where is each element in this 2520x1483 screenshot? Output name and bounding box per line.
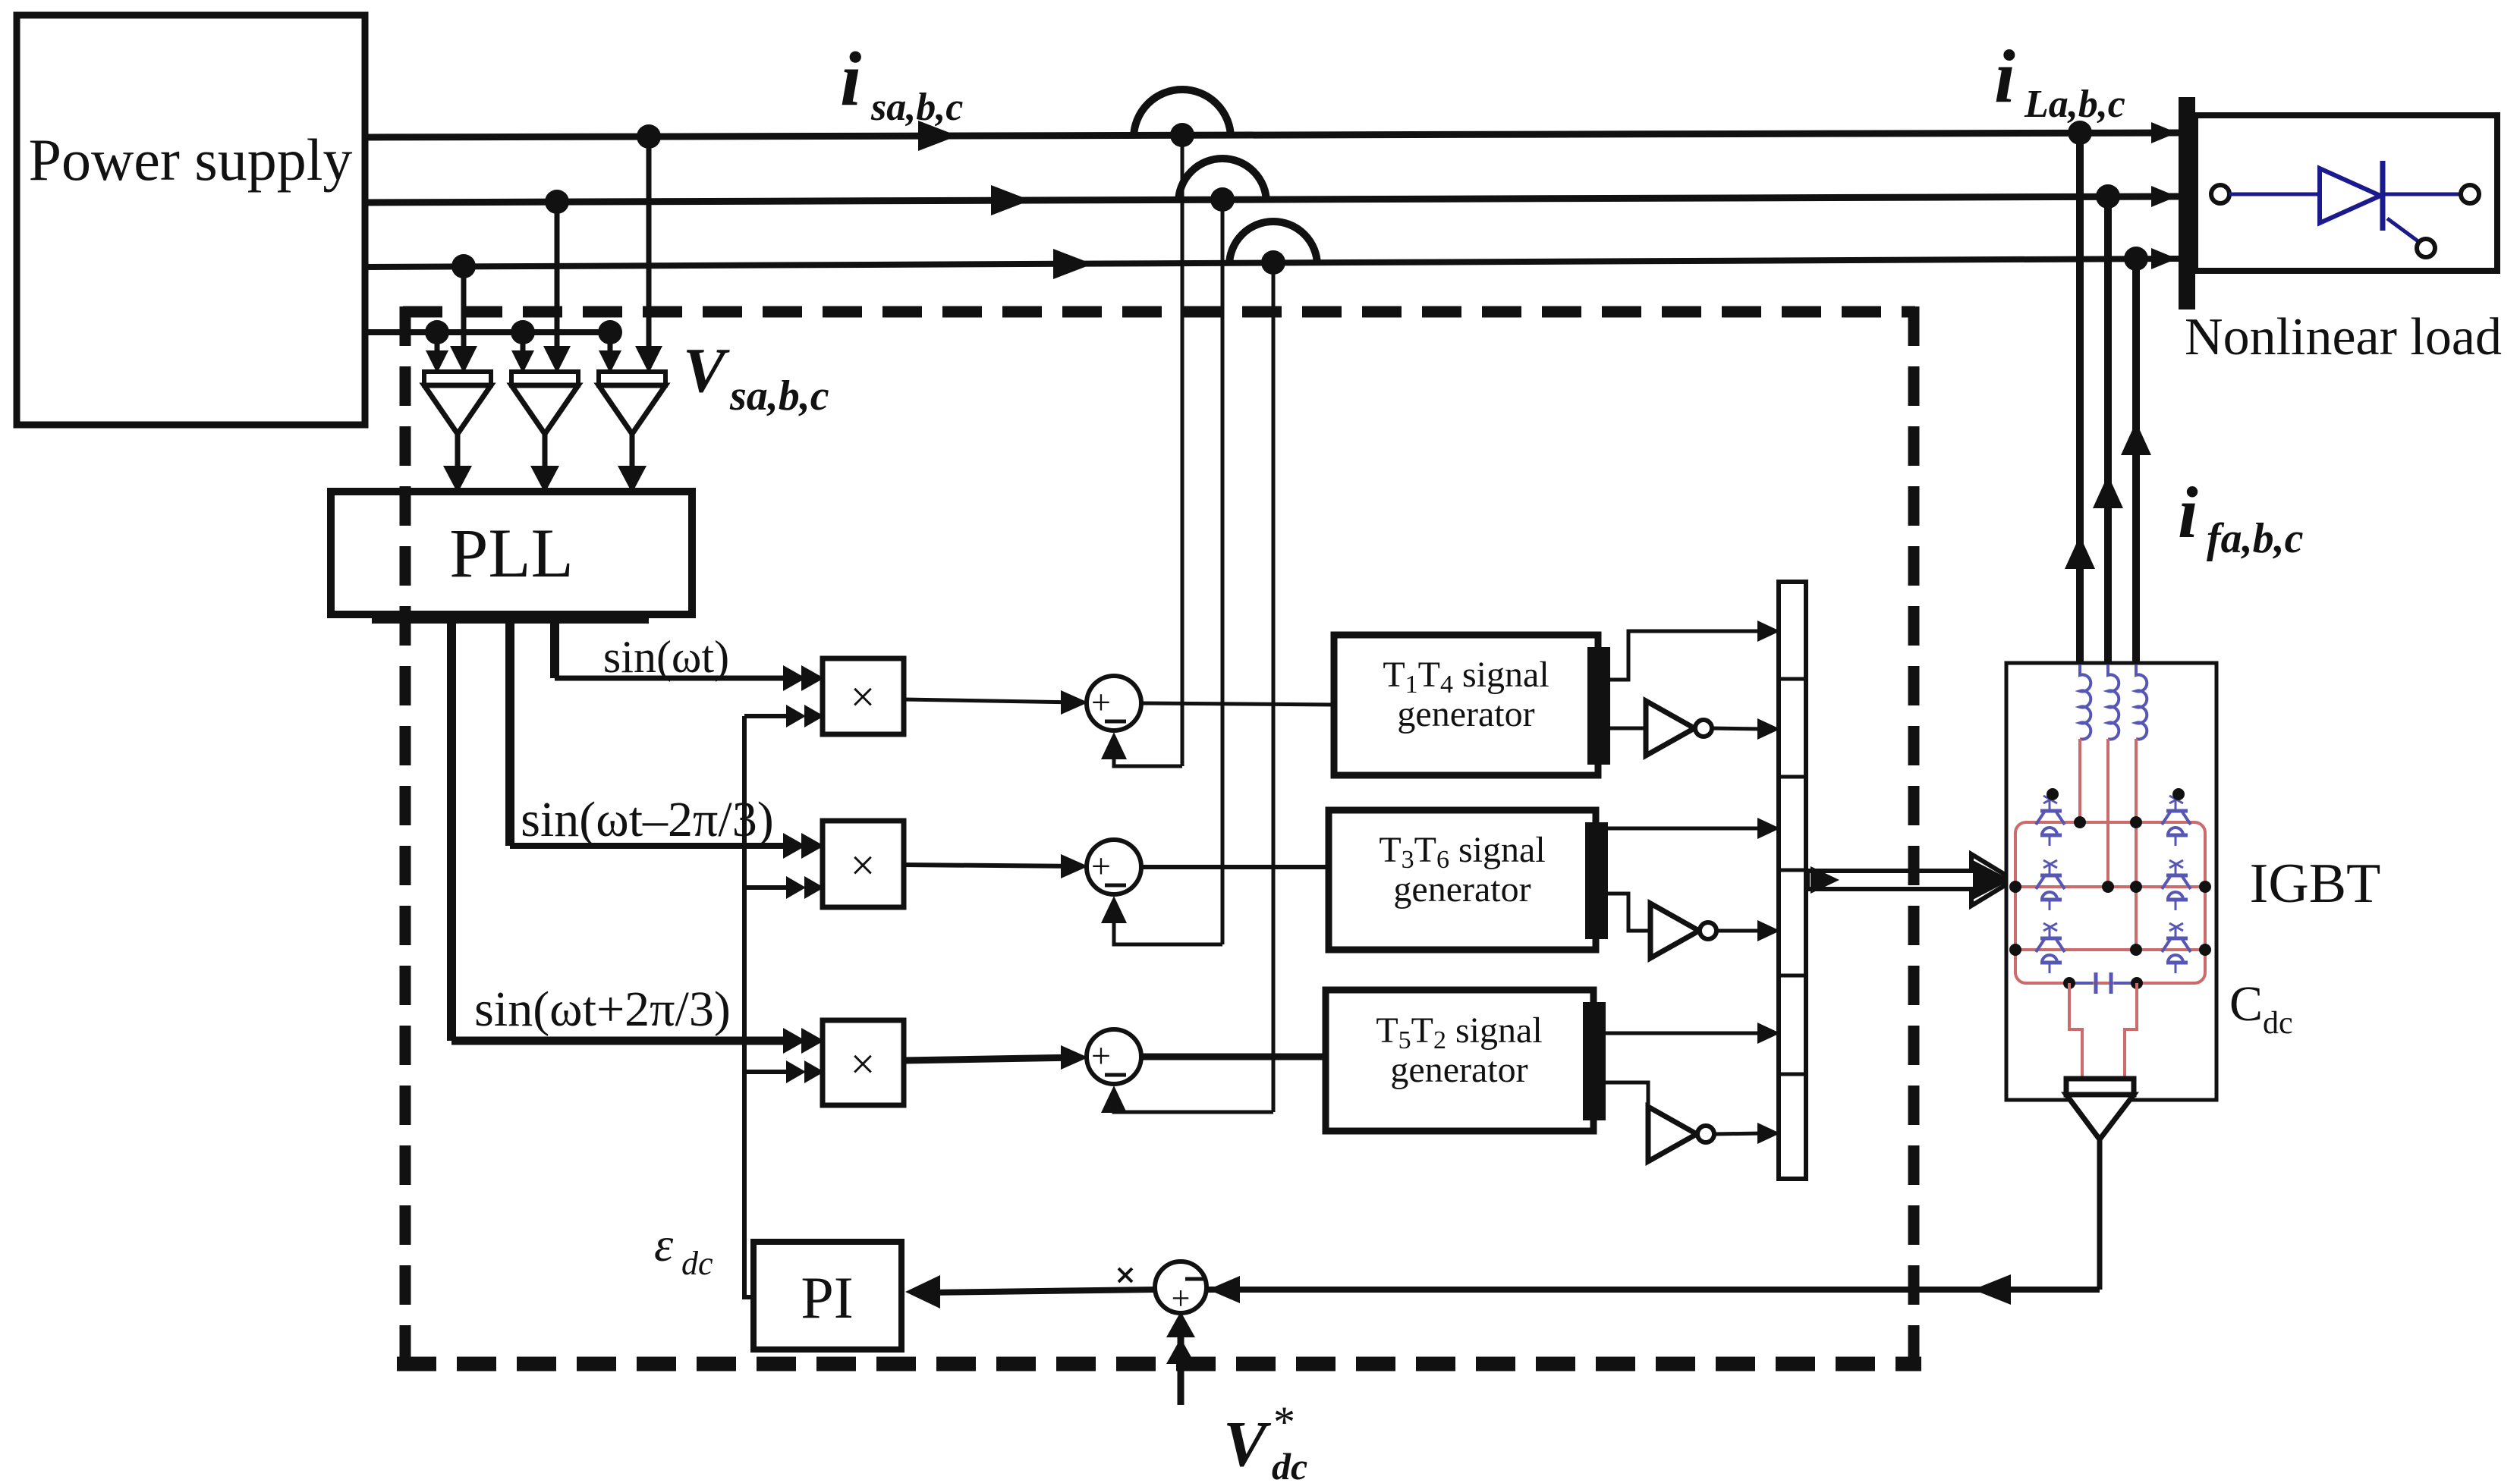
S4 minus sign — [1185, 1277, 1203, 1281]
current transformer CT-B arc — [1178, 159, 1266, 203]
thyristor anode wire — [2229, 193, 2320, 196]
PLL box bottom shadow — [372, 611, 649, 624]
wire neutral stub 2 — [521, 332, 526, 353]
arrow S2 feedback up — [1101, 896, 1127, 923]
arrow NOT1 into bus — [1757, 718, 1780, 740]
red dc frame — [2015, 822, 2205, 983]
arrow tap A into sensor — [635, 346, 662, 373]
red wire to Vdc sensor right — [2125, 983, 2137, 1079]
wire tap phase B down — [555, 202, 560, 347]
wire NOT2 to bus — [1716, 929, 1762, 933]
wire T3T6 direct out — [1606, 827, 1762, 831]
svg-text:sin(ωt): sin(ωt) — [603, 632, 729, 682]
arrow tap B into sensor — [543, 346, 571, 373]
voltage transducer 1 — [424, 372, 491, 385]
wire into NOT gate 3 — [1603, 1082, 1648, 1107]
current transformer CT-C arc — [1229, 222, 1317, 265]
IGBT switch T4 — [2175, 865, 2177, 875]
wire PLL out 2 (sin wt-2pi/3) vertical — [505, 614, 514, 846]
svg-text:+: + — [1091, 1036, 1111, 1075]
arrow into summer 3 — [1061, 1045, 1088, 1070]
IGBT node 4 — [2102, 881, 2114, 893]
dashed controller box bottom edge — [397, 1357, 1921, 1371]
wire Vdc sense horizontal — [1208, 1287, 2100, 1293]
dashed controller box right edge — [1908, 306, 1920, 1369]
svg-text:Power supply: Power supply — [29, 127, 353, 193]
wire S1 feedback — [1114, 757, 1182, 766]
multiplier M3 box — [823, 1020, 904, 1105]
wire sin(wt) to multiplier — [555, 676, 794, 681]
arrow neutral stub 2 — [511, 350, 534, 373]
wire branch to M1 lower input — [744, 714, 794, 718]
svg-text:La,b,c: La,b,c — [2024, 83, 2125, 126]
svg-text:dc: dc — [1272, 1445, 1307, 1483]
T3T6 signal generator box — [1329, 810, 1596, 950]
arrow tap C into sensor — [450, 346, 477, 373]
IGBT node 12 — [2047, 788, 2059, 800]
Vdc sensor triangle — [2066, 1095, 2134, 1139]
bus bar divider 3 — [1779, 869, 1806, 872]
IGBT node 7 — [2009, 944, 2021, 956]
svg-text:sin(ωt–2π/3): sin(ωt–2π/3) — [521, 792, 773, 847]
red wire to Vdc sensor left — [2069, 983, 2082, 1079]
arrow phase C into load bus — [2151, 248, 2177, 269]
arrow into bottom summer — [1208, 1276, 1240, 1303]
node tap phase B — [545, 190, 569, 214]
wire M3 out to summer 3 — [904, 1057, 1079, 1060]
arrow NOT2 into bus — [1757, 920, 1780, 941]
arrow phase C flow — [1053, 249, 1093, 279]
node filter phase C — [2124, 247, 2148, 271]
wire T1T4 direct out — [1610, 631, 1762, 680]
svg-text:generator: generator — [1397, 694, 1534, 734]
inverter NOT1 — [1646, 701, 1694, 756]
wire sin(wt+2pi/3) to multiplier — [451, 1037, 794, 1045]
svg-text:+: + — [1091, 847, 1111, 885]
bus bar divider 4 — [1779, 974, 1806, 978]
svg-text:+: + — [1172, 1280, 1191, 1317]
arrow phase B into load bus — [2151, 186, 2177, 207]
IGBT node 10 — [2063, 977, 2075, 989]
arrow T3T6 out into bus — [1757, 818, 1780, 839]
power supply box — [17, 15, 365, 425]
wire inverter leg A — [2078, 739, 2081, 822]
arrow Vdc* head 2 — [1166, 1338, 1195, 1364]
arrow T5T2 out into bus — [1757, 1023, 1780, 1044]
svg-text:i: i — [1994, 34, 2015, 118]
wire S1 to T1T4 generator — [1141, 703, 1334, 705]
wire S4 to PI — [926, 1290, 1155, 1293]
load input bus bar — [2179, 97, 2195, 309]
wire filter phase C vertical — [2132, 259, 2140, 663]
IGBT node 3 — [2009, 881, 2021, 893]
thyristor cathode bar — [2380, 161, 2386, 231]
arrow NOT3 into bus — [1757, 1123, 1780, 1144]
PI box — [753, 1242, 901, 1349]
thyristor right terminal — [2461, 185, 2479, 203]
svg-text:×: × — [851, 1039, 876, 1089]
red rail mid — [2015, 885, 2205, 888]
summing junction S3 — [1087, 1029, 1141, 1084]
arrow Vdc sense mid — [1973, 1274, 2011, 1305]
current transformer CT-A arc — [1134, 90, 1231, 138]
IGBT node 8 — [2130, 944, 2142, 956]
svg-text:IGBT: IGBT — [2250, 853, 2381, 915]
svg-text:×: × — [851, 672, 876, 721]
inductor Lc — [2136, 665, 2147, 740]
multiplier M2 box — [823, 821, 904, 907]
IGBT node 9 — [2199, 944, 2211, 956]
node filter phase A — [2068, 121, 2092, 145]
dashed controller box top edge — [403, 306, 1915, 318]
arrow into summer 2 — [1061, 854, 1088, 878]
wide gate bus arrow shaft — [1807, 854, 2014, 906]
svg-text:×: × — [851, 840, 876, 890]
IGBT node 13 — [2172, 788, 2185, 800]
svg-text:C: C — [2229, 976, 2263, 1032]
arrow into PI — [905, 1275, 940, 1309]
multiplier M1 box — [823, 658, 904, 734]
arrow into summer 1 — [1061, 690, 1088, 715]
IGBT switch T2 — [2175, 800, 2177, 811]
wire neutral stub 3 — [608, 332, 613, 353]
svg-text:dc: dc — [2263, 1006, 2293, 1041]
svg-text:sa,b,c: sa,b,c — [729, 372, 829, 419]
arrow into M1 lower input — [786, 705, 806, 727]
arrow Vdc* head 1 — [1166, 1312, 1195, 1337]
nonlinear load box — [2195, 115, 2497, 271]
wire Vdc sensor down — [2097, 1139, 2103, 1290]
svg-text:sa,b,c: sa,b,c — [870, 86, 963, 129]
arrow neutral stub 3 — [599, 350, 621, 373]
arrow phase A flow — [918, 121, 958, 151]
wire CT-B sense line down — [1221, 200, 1225, 944]
svg-text:ε: ε — [654, 1218, 674, 1271]
node neutral tap 1 — [425, 320, 449, 344]
svg-text:+: + — [1091, 683, 1111, 721]
inductor La — [2080, 665, 2091, 740]
wire M2 out to summer 2 — [904, 865, 1079, 866]
svg-text:V: V — [683, 335, 730, 406]
svg-text:*: * — [1273, 1397, 1295, 1447]
svg-text:dc: dc — [681, 1245, 713, 1282]
current transformer CT-A dot — [1170, 123, 1194, 147]
node filter phase B — [2096, 184, 2120, 209]
wire filter phase A vertical — [2076, 133, 2084, 663]
wire PLL out 3 (sin wt) vertical — [550, 614, 559, 678]
arrow into multiplier 2 — [783, 833, 806, 859]
node neutral tap 2 — [511, 320, 535, 344]
IGBT switch T3 — [2049, 865, 2051, 875]
wire M1 out to summer 1 — [904, 699, 1079, 702]
svg-text:generator: generator — [1390, 1050, 1527, 1090]
wire into NOT gate 2 — [1606, 894, 1650, 931]
IGBT switch T5 — [2049, 928, 2051, 938]
wire phase B (middle line) — [365, 196, 2179, 203]
wire neutral to voltage sensors — [365, 329, 610, 335]
arrow S1 feedback up — [1101, 732, 1127, 759]
wire NOT3 to bus — [1714, 1133, 1762, 1134]
IGBT box — [2006, 663, 2216, 1100]
summing junction S1 — [1087, 676, 1141, 731]
stray cross mark — [1118, 1268, 1132, 1282]
wire S3 to T5T2 generator — [1141, 1054, 1326, 1060]
wire tap phase C down — [461, 266, 467, 347]
arrow neutral stub 1 — [426, 350, 448, 373]
wire neutral stub 1 — [435, 332, 440, 353]
svg-text:Nonlinear load: Nonlinear load — [2185, 308, 2502, 366]
svg-text:i: i — [2178, 472, 2198, 553]
voltage transducer 2 — [511, 372, 578, 385]
red rail low — [2015, 948, 2205, 951]
wire S2 feedback — [1114, 921, 1222, 944]
wire T5T2 direct out — [1603, 1032, 1762, 1035]
wire phase A (top line isa) — [365, 133, 2179, 137]
arrow T1T4 out into bus — [1757, 621, 1780, 642]
wire PLL out 1 (sin wt+2pi/3) vertical — [447, 614, 456, 1041]
node tap phase C — [451, 254, 476, 278]
IGBT node 2 — [2130, 816, 2142, 828]
wide gate bus arrow solid head left — [1811, 866, 1839, 894]
bottom summing junction S4 — [1155, 1261, 1207, 1313]
IGBT switch T1 — [2049, 800, 2051, 811]
wire phase C (bottom line) — [365, 259, 2179, 267]
IGBT node 6 — [2199, 881, 2211, 893]
wire S2 to T3T6 generator — [1141, 865, 1329, 869]
wire filter phase B vertical — [2104, 196, 2112, 663]
arrow phase A into load bus — [2151, 122, 2177, 143]
thyristor gate terminal — [2417, 239, 2435, 257]
arrow into M2 lower input — [786, 876, 806, 899]
wire inverter leg C — [2135, 739, 2138, 950]
inverter NOT2 — [1650, 903, 1699, 958]
PLL box — [331, 492, 692, 614]
node tap phase A — [637, 124, 661, 149]
wire branch to M3 lower input — [744, 1070, 794, 1074]
wire NOT1 to bus — [1712, 728, 1762, 729]
dc capacitor wire — [2069, 982, 2093, 985]
dc capacitor Cdc plates — [2094, 972, 2098, 994]
wire S3 feedback — [1114, 1111, 1273, 1112]
svg-text:generator: generator — [1393, 869, 1531, 910]
svg-text:V: V — [1223, 1407, 1272, 1480]
arrow i_f C up — [2121, 422, 2151, 455]
svg-text:PLL: PLL — [449, 514, 574, 592]
arrow S3 feedback up — [1101, 1086, 1127, 1113]
arrow into M3 lower input — [786, 1060, 806, 1083]
bus bar divider 1 — [1779, 677, 1806, 681]
inductor Lb — [2108, 665, 2119, 740]
current transformer CT-C dot — [1261, 250, 1285, 275]
wire inverter leg B — [2106, 739, 2109, 887]
T1T4 signal generator box — [1334, 635, 1598, 775]
thyristor gate wire — [2387, 218, 2419, 242]
bus bar divider 2 — [1779, 775, 1806, 779]
wire CT-A sense line down — [1181, 135, 1184, 766]
Vdc sensor rect — [2066, 1079, 2134, 1095]
svg-text:sin(ωt+2π/3): sin(ωt+2π/3) — [474, 982, 731, 1037]
T5T2 signal generator box — [1326, 990, 1593, 1131]
current transformer CT-B dot — [1210, 187, 1235, 212]
IGBT node 1 — [2074, 816, 2086, 828]
svg-text:PI: PI — [801, 1265, 853, 1331]
arrow into multiplier 3 — [783, 1028, 806, 1054]
IGBT node 11 — [2131, 977, 2143, 989]
wire sin(wt-2pi/3) to multiplier — [510, 843, 794, 849]
wire into NOT gate 1 — [1610, 727, 1646, 731]
thyristor left terminal — [2211, 185, 2229, 203]
wire branch to M2 lower input — [744, 885, 794, 890]
thyristor cathode wire — [2383, 193, 2461, 196]
arrow phase B flow — [991, 185, 1030, 215]
bus bar divider 5 — [1779, 1073, 1806, 1076]
IGBT switch T6 — [2175, 928, 2177, 938]
voltage transducer 3 — [599, 372, 665, 385]
wire CT-C sense line down — [1272, 262, 1276, 1112]
dashed controller box left edge — [400, 306, 411, 1369]
arrow sin(wt) into multiplier 1 — [783, 665, 806, 691]
wide gate bus arrow solid head right — [1973, 860, 2011, 900]
inverter NOT3 — [1648, 1107, 1697, 1161]
arrow i_f B up — [2093, 475, 2123, 508]
wire Vdc* up into S4 — [1178, 1321, 1184, 1405]
summing junction S2 — [1087, 840, 1141, 894]
arrow i_f A up — [2065, 536, 2095, 569]
IGBT node 5 — [2130, 881, 2142, 893]
wire tap phase A down — [647, 137, 652, 347]
gate signal bus bar — [1779, 582, 1806, 1179]
wire PI output up — [744, 716, 753, 1297]
thyristor triangle — [2320, 168, 2380, 223]
svg-text:fa,b,c: fa,b,c — [2207, 515, 2304, 562]
svg-text:i: i — [840, 36, 861, 122]
node neutral tap 3 — [598, 320, 622, 344]
